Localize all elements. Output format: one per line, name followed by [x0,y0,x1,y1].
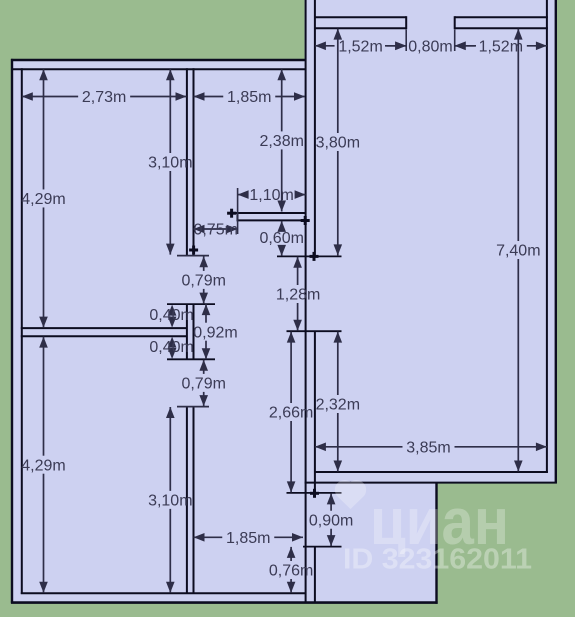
svg-text:4,29m: 4,29m [21,457,65,474]
wall: hall outer right [435,482,437,604]
wall: right-section left inner, lower segment [314,547,316,603]
wall: cross wall bottom line [21,335,187,337]
dimension 1,52m balcony stub left [315,45,335,47]
dimension 3,80m living room to door [337,29,339,133]
extension line closet left [237,188,239,234]
extension line balcony door left [405,30,407,51]
node marker D [301,219,310,222]
svg-text:0,92m: 0,92m [193,324,237,341]
svg-text:0,90m: 0,90m [309,512,353,529]
wall: inner left [21,68,23,594]
wall: middle stub left line [186,304,188,359]
wall: upper middle partition right line [193,68,195,255]
wall: balcony partition left stub bottom line [314,27,406,29]
svg-text:2,32m: 2,32m [316,397,360,414]
svg-text:4,29m: 4,29m [21,191,65,208]
svg-text:1,85m: 1,85m [227,89,271,106]
dimension 0,80m balcony door [385,45,406,47]
wall: right-section left inner, middle segment [314,331,316,494]
wall: right stub end cap [454,16,456,29]
dimension 0,75m closet door [194,228,238,230]
svg-text:7,40m: 7,40m [496,243,540,260]
dimension 7,40m living room height [517,29,519,241]
wall: inner bottom [21,592,307,594]
node marker C [227,212,236,215]
svg-text:0,60m: 0,60m [259,230,303,247]
extension+cap line stub top [167,303,215,305]
svg-text:0,75m: 0,75m [193,222,237,239]
svg-text:3,80m: 3,80m [316,135,360,152]
svg-text:0,40m: 0,40m [149,339,193,356]
wall: lower middle partition left line [186,407,188,594]
svg-text:1,52m: 1,52m [479,38,523,55]
wall: balcony partition right stub top line [455,16,548,18]
svg-text:3,10m: 3,10m [148,493,192,510]
dimension 2,32m door to bottom [337,332,339,395]
dimension 1,52m balcony stub right [455,45,475,47]
dimension 2,66m wall to hall [290,332,292,403]
dimension 0,60m [281,221,283,229]
wall: cross wall top line [21,327,187,329]
dimension 0,79m upper door [203,256,205,271]
svg-text:1,28m: 1,28m [276,287,320,304]
svg-text:2,73m: 2,73m [82,89,126,106]
svg-text:1,85m: 1,85m [226,530,270,547]
node marker A [189,249,198,252]
svg-text:0,79m: 0,79m [181,273,225,290]
dimension 0,76m bottom stub [290,547,292,561]
svg-text:3,85m: 3,85m [406,439,450,456]
wall: right-section left outer line [305,0,307,603]
extension+cap line stub bottom [167,358,215,360]
wall: closet left cap [237,212,239,221]
svg-text:1,10m: 1,10m [249,187,293,204]
extension+cap line hall door bottom [303,546,342,548]
wall: right-section outer bottom [305,482,557,484]
svg-text:0,76m: 0,76m [269,563,313,580]
node marker E [310,492,319,495]
wall: outer bottom [11,601,438,604]
extension line at lower partition end [177,406,209,408]
svg-text:ID 323162011: ID 323162011 [343,544,532,576]
svg-text:2,66m: 2,66m [269,405,313,422]
wall: upper middle partition left line [186,68,188,255]
wall: closet bottom line [238,219,306,221]
wall: inner top of left section [11,68,306,70]
watermark cian heart logo [335,480,366,509]
dimension 1,85m corridor width top [194,96,224,98]
dimension 0,90m hall door [330,493,332,510]
dimension 0,92m stub length [205,304,207,323]
extension line at upper partition end [177,255,209,257]
extension+cap line hall door top [287,492,342,494]
dimension 4,29m room1 height [43,69,45,189]
dimension 1,85m corridor width bottom [194,536,223,538]
dimension 1,10m closet width [238,194,246,196]
extension+cap line right wall upper door top [277,255,342,257]
svg-text:1,52m: 1,52m [338,38,382,55]
wall: outer left [11,59,13,603]
wall: middle stub right line [193,304,195,359]
dimension 3,10m upper partition length [169,69,171,153]
extension line balcony door right [454,30,456,51]
dimension 0,79m lower door [203,360,205,374]
node marker B [310,255,319,258]
dimension 4,29m room2 height [43,337,45,456]
dimension 3,10m lower partition length [169,407,171,491]
dimension 3,85m living room width [315,446,403,448]
dimension 0,40m lower [168,337,177,348]
svg-text:0,80m: 0,80m [408,38,452,55]
dimension 2,38m corridor upper height [281,69,283,131]
svg-text:0,79m: 0,79m [181,376,225,393]
dimension 2,73m room1 width [22,96,78,98]
wall: balcony partition left stub top line [314,16,406,18]
wall: outer right [555,0,557,483]
svg-text:2,38m: 2,38m [259,133,303,150]
dimension 0,40m upper [168,305,177,316]
svg-text:3,10m: 3,10m [148,155,192,172]
dimension 1,28m right wall door [297,257,299,285]
wall: inner right [546,0,548,473]
wall: outer top of left section [11,59,306,61]
wall: right-section inner bottom [314,471,548,473]
wall: left stub end cap [405,16,407,29]
wall: right-section left inner, upper segment [314,0,316,256]
wall: balcony partition right stub bottom line [455,27,548,29]
extension+cap line right wall upper door bottom [287,330,342,332]
wall: lower middle partition right line [193,407,195,594]
svg-text:0,40m: 0,40m [149,307,193,324]
wall: closet top line [230,212,306,214]
